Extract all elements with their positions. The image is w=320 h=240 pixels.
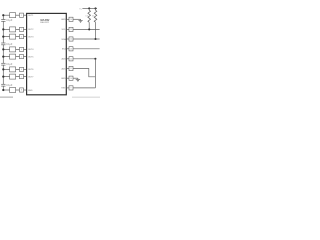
svg-text:GND: GND [28, 90, 33, 92]
svg-text:GND: GND [61, 78, 66, 80]
svg-text:OUT5: OUT5 [28, 56, 34, 58]
ground G2 [76, 78, 80, 82]
capacitor C1 plates [1, 20, 5, 22]
wire row4 mid segment [16, 48, 20, 50]
wire pin12 stub [66, 48, 69, 50]
svg-text:14: 14 [70, 39, 72, 41]
wire row1 mid segment [16, 14, 20, 16]
wire row6 left segment [3, 68, 9, 70]
svg-text:IRQ: IRQ [62, 49, 66, 51]
relay coil K6 [10, 67, 16, 72]
wire row6 to IC [24, 68, 27, 70]
wire V+ bus vertical segment 2 [2, 21, 4, 43]
svg-text:7: 7 [21, 76, 22, 78]
pin box 3 (left) [20, 35, 24, 39]
node rail-R1 junction dot [88, 7, 90, 9]
svg-text:OUT1: OUT1 [28, 15, 34, 17]
relay coil K8 [10, 88, 16, 93]
wire bottom right faint rule [72, 96, 100, 98]
svg-text:1: 1 [21, 15, 22, 17]
wire row7 left segment [3, 76, 9, 78]
wire row2 mid segment [16, 28, 20, 30]
capacitor C3 plates [1, 63, 5, 65]
pin box 12 (right) [69, 47, 73, 51]
relay coil K7 [10, 74, 16, 79]
wire row1 to IC [24, 14, 27, 16]
pin box 11 (right, SDA) [69, 37, 73, 41]
caption smudge bottom left [0, 96, 13, 98]
wire pin9 to ground [73, 18, 81, 20]
svg-text:0.1μF: 0.1μF [6, 84, 13, 87]
wire row2 left segment [3, 28, 9, 30]
wire row4 left segment [3, 48, 9, 50]
wire row5 left segment [3, 56, 9, 58]
svg-text:0.1μF: 0.1μF [6, 43, 13, 46]
wire pin15 stub [66, 77, 69, 79]
svg-text:12: 12 [70, 59, 72, 61]
relay coil K5 [10, 54, 16, 59]
resistor R1 [88, 8, 91, 29]
svg-text:4: 4 [21, 49, 22, 51]
svg-text:11: 11 [70, 68, 72, 70]
wire V+ bus vertical segment 1 [2, 15, 4, 19]
pin box 14 (right) [69, 66, 73, 70]
svg-text:9: 9 [71, 88, 72, 90]
wire row5 to IC [24, 56, 27, 58]
capacitor C4 plates [1, 84, 5, 86]
wire row1 left segment [3, 14, 9, 16]
svg-text:OUT6: OUT6 [28, 69, 34, 71]
wire V+ bus vertical segment 4 [2, 65, 4, 84]
svg-text:0.1μF: 0.1μF [6, 19, 13, 22]
wire row5 mid segment [16, 56, 20, 58]
wire pin15 to ground [73, 77, 78, 79]
wire SDA net [73, 38, 100, 40]
svg-text:13: 13 [70, 49, 72, 51]
relay coil K1 [10, 13, 16, 18]
wire row7 mid segment [16, 76, 20, 78]
svg-text:3: 3 [21, 36, 22, 38]
node bus junction dots (left rows) [2, 14, 4, 91]
wire row7 to IC [24, 76, 27, 78]
wire pin12 net [73, 48, 100, 50]
svg-text:SDA: SDA [61, 38, 66, 41]
svg-text:6: 6 [21, 69, 22, 71]
pin box 1 (left) [20, 13, 24, 17]
wire row3 left segment [3, 36, 9, 38]
svg-text:OUT2: OUT2 [28, 29, 34, 31]
wire pin13 stub [66, 58, 69, 60]
relay coil K3 [10, 34, 16, 39]
wire SCL net [73, 28, 100, 30]
wire row4 to IC [24, 48, 27, 50]
svg-text:10k: 10k [85, 16, 88, 18]
wire row8 mid segment [16, 89, 20, 91]
pin box 15 (right, GND) [69, 76, 73, 80]
wire V+ pullup rail [82, 7, 97, 9]
wire pin11 stub [66, 38, 69, 40]
pin box 13 (right) [69, 57, 73, 61]
wire V+ bus vertical segment 5 [2, 86, 4, 90]
pin box 16 (right) [69, 86, 73, 90]
pin box 6 (left) [20, 67, 24, 71]
ground G1 [79, 19, 83, 22]
wire V+ bus vertical segment 3 [2, 45, 4, 64]
wire row3 to IC [24, 36, 27, 38]
svg-text:5: 5 [21, 56, 22, 58]
wire row2 to IC [24, 28, 27, 30]
relay coil K4 [10, 47, 16, 52]
wire pin16 net [73, 87, 95, 89]
wire node A vertical [94, 59, 96, 88]
capacitor C2 plates [1, 43, 5, 45]
svg-text:OUT4: OUT4 [28, 49, 34, 51]
pin box 4 (left) [20, 47, 24, 51]
svg-text:MAX4822: MAX4822 [40, 21, 50, 24]
relay coil K2 [10, 27, 16, 32]
node A junction dot [94, 58, 96, 60]
svg-text:RST: RST [61, 88, 66, 90]
svg-text:GND: GND [61, 19, 66, 21]
svg-text:OUT7: OUT7 [28, 76, 34, 78]
svg-text:OUT3: OUT3 [28, 36, 34, 38]
op-amp U1 IC body MAX4822 [27, 13, 67, 94]
wire row8 to IC [24, 89, 27, 91]
wire pin16 stub [66, 87, 69, 89]
svg-text:16: 16 [70, 19, 72, 21]
wire pin14 net [73, 69, 95, 77]
resistor R2 [94, 8, 97, 39]
wire pin13 net [73, 58, 95, 60]
svg-text:2: 2 [21, 29, 22, 31]
svg-text:10: 10 [70, 78, 72, 80]
node R1-SCL junction dot [88, 28, 90, 30]
wire pin10 stub [66, 28, 69, 30]
pin box 2 (left) [20, 27, 24, 31]
pin box 9 (right, GND) [69, 17, 73, 21]
wire row6 mid segment [16, 68, 20, 70]
svg-text:8: 8 [21, 90, 22, 92]
pin box 5 (left) [20, 55, 24, 59]
wire row8 left segment [3, 89, 9, 91]
wire pin14 stub [66, 68, 69, 70]
node rail-R2 junction dot [94, 7, 96, 9]
wire row3 mid segment [16, 36, 20, 38]
svg-text:0.1μF: 0.1μF [6, 63, 13, 66]
wire pin9 stub [66, 18, 69, 20]
svg-text:15: 15 [70, 29, 72, 31]
pin box 8 (left) [20, 88, 24, 92]
pin box 7 (left) [20, 75, 24, 79]
pin box 10 (right, SCL) [69, 27, 73, 31]
svg-text:10k: 10k [92, 16, 95, 18]
node R2-SDA junction dot [94, 38, 96, 40]
